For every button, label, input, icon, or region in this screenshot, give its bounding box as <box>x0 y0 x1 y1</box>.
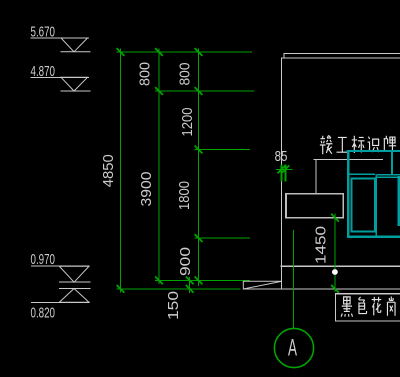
cyan bottom beam <box>347 235 400 238</box>
tick at (198.5,280.4) <box>195 277 203 285</box>
dim line 85 <box>276 168 293 170</box>
dim line 4850 vertical <box>120 49 122 293</box>
sign box side view <box>286 194 343 218</box>
tick at (198.5,238) <box>195 234 203 242</box>
tick 85 left <box>278 165 286 173</box>
elevation 5.670 triangle symbol <box>61 38 90 52</box>
extension line y=288.9 <box>117 288 241 290</box>
label text 黑色花岗 <box>341 297 352 317</box>
tick at (159,91) <box>155 87 163 95</box>
svg-text:85: 85 <box>275 148 288 165</box>
dim line 3900 vertical <box>158 49 160 285</box>
cyan beam lower line <box>377 176 400 178</box>
tick at (189.7,288.9) <box>186 285 194 293</box>
ext line 85 left <box>281 165 283 182</box>
tick at (159,280.4) <box>155 277 163 285</box>
svg-text:0.820: 0.820 <box>31 304 56 321</box>
svg-text:900: 900 <box>177 247 194 276</box>
tick at (120.5,52) <box>117 48 125 56</box>
tick 85 right <box>282 165 290 173</box>
ground top line <box>281 265 400 267</box>
label text 竣工标识牌 <box>320 135 332 154</box>
leader line to bubble A <box>292 230 294 328</box>
cyan beam upper line <box>377 174 400 176</box>
extension line y=91 <box>155 90 254 92</box>
svg-text:1800: 1800 <box>176 181 193 210</box>
tick 1450 bottom <box>331 285 339 293</box>
ext line 85 right <box>284 165 286 182</box>
ground bottom line <box>243 288 400 290</box>
cyan left post <box>347 151 349 238</box>
svg-text:0.970: 0.970 <box>31 251 56 268</box>
cyan right post lower <box>398 176 400 226</box>
label underline <box>314 158 383 160</box>
elevation 4.870 triangle symbol <box>61 77 90 91</box>
elevation 4.870 underline <box>31 76 89 78</box>
elevation 0.970 line <box>32 265 90 267</box>
leader drop line <box>315 159 317 193</box>
svg-text:150: 150 <box>165 291 182 320</box>
extension line y=280.4 <box>155 279 250 281</box>
elevation 0.820 triangle <box>59 289 89 303</box>
svg-text:4850: 4850 <box>100 154 117 187</box>
dim line 1450 <box>334 214 336 293</box>
dim line right chain vertical <box>198 49 200 287</box>
tick at (198.5,52) <box>195 48 203 56</box>
material label box <box>336 294 400 321</box>
grid bubble A circle <box>274 328 313 367</box>
cyan mid vertical <box>375 174 377 236</box>
mid line lower <box>59 288 90 290</box>
coping bottom line <box>281 57 400 59</box>
tick at (159,52) <box>155 48 163 56</box>
tick at (189.7,280.4) <box>186 277 194 285</box>
cyan top line <box>347 150 400 152</box>
svg-text:3900: 3900 <box>138 172 155 207</box>
elevation 0.970 triangle <box>59 266 89 282</box>
cyan inner door rect <box>351 179 374 232</box>
tick 1450 top <box>331 214 339 222</box>
coping edge step <box>283 54 285 58</box>
ramp wedge <box>243 281 281 289</box>
elevation 5.670 underline <box>31 37 89 39</box>
extension line y=149.5 <box>195 149 251 151</box>
extension line y=238 <box>195 237 251 239</box>
tick at (198.5,91) <box>195 87 203 95</box>
grip point dot <box>332 269 338 275</box>
extension line top y=52 <box>117 51 253 53</box>
elevation 0.820 line <box>32 301 90 303</box>
svg-text:A: A <box>288 335 297 362</box>
svg-text:1450: 1450 <box>312 226 329 264</box>
svg-text:800: 800 <box>137 62 154 86</box>
tick at (198.5,149.5) <box>195 146 203 154</box>
cyan mid horizontal <box>348 173 375 175</box>
mid line upper <box>59 281 90 283</box>
wall face vertical <box>280 58 282 289</box>
dim line 150 vertical <box>189 277 191 293</box>
svg-text:800: 800 <box>177 63 194 86</box>
tick at (120.5,288.9) <box>117 285 125 293</box>
coping top line <box>284 53 400 55</box>
cyan right post upper <box>391 151 393 174</box>
svg-text:1200: 1200 <box>179 108 196 137</box>
